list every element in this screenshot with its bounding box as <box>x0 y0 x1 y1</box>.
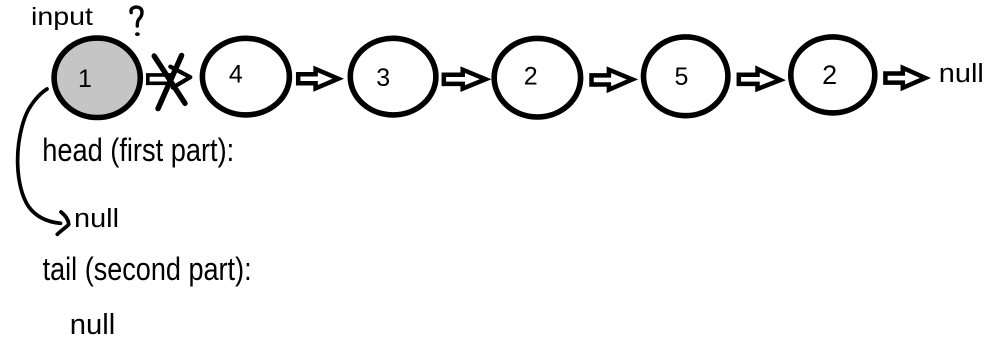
crossed-out arrow head <box>170 67 190 88</box>
svg-text:2: 2 <box>822 60 837 90</box>
svg-text:input: input <box>31 3 93 31</box>
node 2 circle (last) <box>791 37 875 113</box>
X stroke 2 <box>158 56 182 109</box>
arrow 2 to null <box>885 68 925 88</box>
node 4 circle <box>202 38 289 115</box>
node 3 circle <box>350 38 436 115</box>
svg-text:3: 3 <box>376 64 390 92</box>
arrow 3 to 2 <box>444 70 486 89</box>
svg-text:head (first part):: head (first part): <box>42 132 234 168</box>
svg-text:null: null <box>70 309 116 341</box>
svg-text:tail (second part):: tail (second part): <box>43 251 252 287</box>
svg-text:null: null <box>74 205 119 233</box>
question mark ? <box>131 7 142 26</box>
arrow 2 to 5 <box>592 70 633 90</box>
node 5 circle <box>644 37 728 116</box>
curved arrow head <box>57 212 68 234</box>
crossed-out arrow (1 to 4) <box>148 75 170 83</box>
svg-text:null: null <box>939 60 984 88</box>
node 1 circle (gray) <box>54 38 140 117</box>
arrow 5 to 2 <box>739 69 781 89</box>
node 2 circle (first) <box>494 38 580 117</box>
svg-text:1: 1 <box>78 65 92 93</box>
question mark dot <box>135 32 140 36</box>
arrow 4 to 3 <box>298 69 338 88</box>
svg-text:5: 5 <box>674 63 688 91</box>
svg-text:2: 2 <box>524 63 538 91</box>
svg-text:4: 4 <box>229 61 243 89</box>
curved arrow from node 1 down to null <box>18 89 61 223</box>
X stroke 1 <box>154 56 185 103</box>
